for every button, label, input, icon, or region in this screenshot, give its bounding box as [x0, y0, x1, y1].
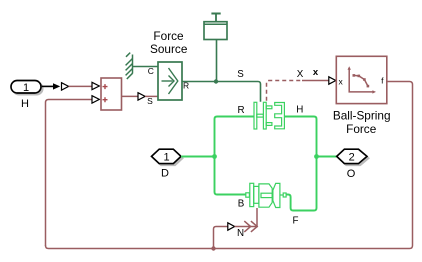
- svg-text:2: 2: [349, 151, 355, 163]
- sum input triangle 1: [92, 82, 99, 89]
- mechanical reference wall: [126, 53, 133, 79]
- dashed wire X: [267, 81, 303, 101]
- wire: N into friction: [235, 208, 257, 227]
- junction dot: [214, 79, 218, 83]
- wire: D junction down to friction B: [215, 157, 246, 195]
- arrow into x port: [329, 77, 336, 84]
- wire: N branch: [214, 227, 228, 249]
- converter triangle on S wire: [138, 93, 145, 100]
- ball-spring force block: [336, 56, 387, 103]
- svg-text:B: B: [238, 198, 245, 209]
- svg-text:Ball-Spring: Ball-Spring: [333, 108, 391, 122]
- junction dot D: [212, 154, 217, 159]
- conn port O (hexagon): [337, 149, 369, 165]
- svg-text:x: x: [313, 67, 319, 78]
- mass block T symbol: [211, 14, 220, 22]
- wire: feedback into sum input 2: [46, 100, 92, 247]
- svg-text:C: C: [148, 66, 154, 76]
- svg-text:1: 1: [23, 82, 29, 94]
- svg-text:Force: Force: [346, 122, 377, 136]
- signal converter triangle: [62, 83, 69, 90]
- svg-text:X: X: [297, 69, 304, 80]
- inport 1 (oval): [11, 81, 43, 95]
- wire: sum to S: [122, 95, 138, 97]
- junction dot (feedback/N): [211, 246, 215, 250]
- svg-text:1: 1: [163, 151, 169, 163]
- svg-text:H: H: [296, 105, 303, 116]
- wire: junction up to hard stop R: [215, 117, 254, 157]
- wire: R line to hard stop: [182, 82, 261, 102]
- sum input triangle 2: [92, 96, 99, 103]
- wire into S port: [145, 95, 158, 97]
- N converter triangle: [228, 223, 235, 230]
- wire: junction to port O: [317, 156, 337, 158]
- svg-text:F: F: [293, 215, 299, 226]
- double chevron on N wire: [244, 221, 257, 232]
- wire: hard stop H to junction and down to friction F: [285, 117, 317, 211]
- svg-text:Source: Source: [150, 42, 188, 56]
- wire: D to junction: [181, 156, 215, 158]
- wire: mass to junction: [216, 40, 218, 82]
- solid wire into x: [302, 80, 329, 82]
- svg-text:S: S: [147, 96, 153, 106]
- conn port D (hexagon): [152, 149, 183, 165]
- force source block: [158, 62, 182, 100]
- svg-text:D: D: [161, 168, 169, 180]
- wire: converter to sum: [69, 85, 92, 87]
- svg-text:N: N: [237, 228, 244, 239]
- junction dot O: [314, 154, 319, 159]
- svg-text:O: O: [347, 168, 356, 180]
- sum block: [101, 78, 122, 110]
- hard stop block: [254, 102, 284, 129]
- wire: wall to C port: [132, 66, 158, 68]
- wire: H to converter (black): [42, 83, 60, 89]
- svg-text:R: R: [237, 105, 244, 116]
- svg-text:S: S: [237, 69, 244, 80]
- wire: f output feedback loop: [46, 82, 413, 249]
- svg-text:H: H: [21, 98, 29, 110]
- mass block: [204, 22, 227, 40]
- friction block: [246, 183, 286, 207]
